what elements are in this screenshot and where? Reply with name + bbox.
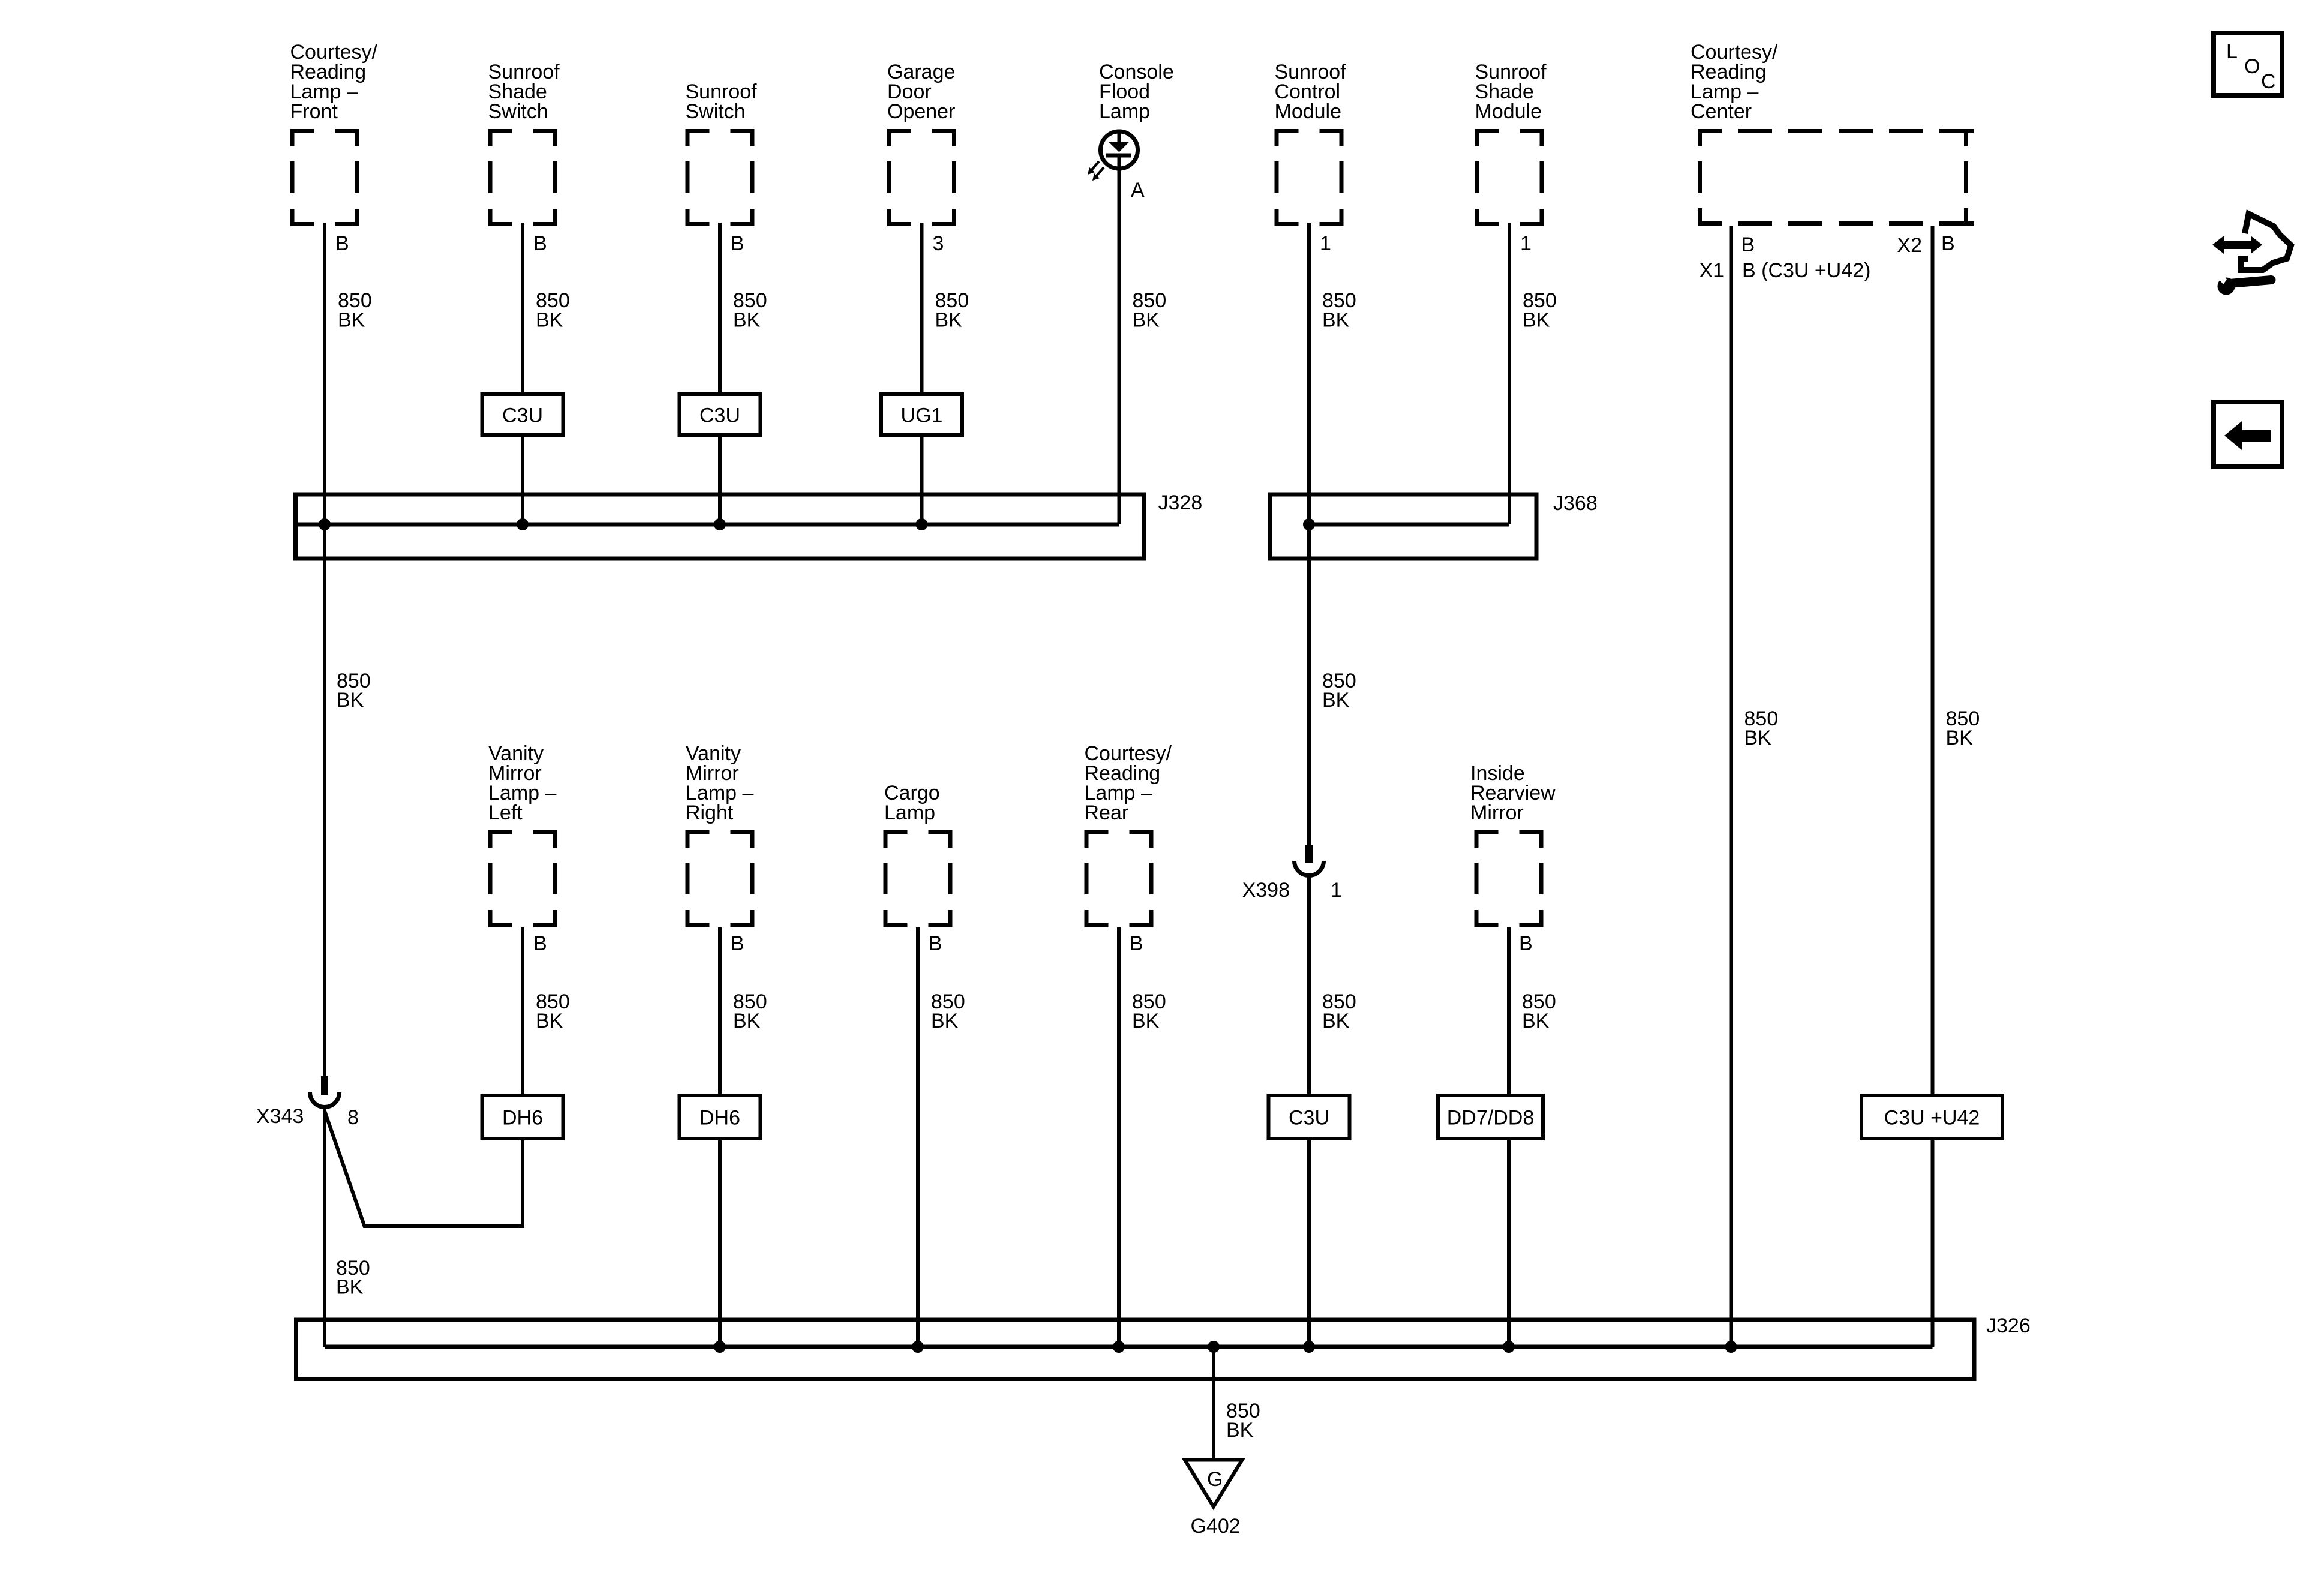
svg-text:B: B [533,232,547,255]
svg-text:BK: BK [536,308,563,331]
svg-text:8: 8 [347,1106,359,1129]
svg-text:B: B [1519,932,1533,955]
svg-text:3: 3 [933,232,944,255]
svg-text:BK: BK [1322,1010,1350,1032]
svg-text:DH6: DH6 [699,1106,740,1129]
svg-text:DH6: DH6 [502,1106,543,1129]
svg-text:Module: Module [1475,100,1542,123]
svg-text:C: C [2261,70,2276,93]
svg-text:BK: BK [1522,1010,1550,1032]
svg-text:DD7/DD8: DD7/DD8 [1447,1106,1534,1129]
svg-text:1: 1 [1520,232,1532,255]
svg-text:Right: Right [686,801,734,824]
svg-text:Front: Front [290,100,338,123]
svg-text:BK: BK [1132,1010,1160,1032]
svg-text:L: L [2226,40,2238,63]
svg-text:BK: BK [931,1010,959,1032]
svg-text:UG1: UG1 [901,404,943,427]
svg-text:X2: X2 [1897,234,1922,257]
svg-text:1: 1 [1331,879,1342,902]
svg-text:Switch: Switch [488,100,548,123]
svg-text:Left: Left [488,801,523,824]
svg-text:B: B [335,232,349,255]
svg-text:J328: J328 [1158,491,1203,514]
svg-text:G402: G402 [1191,1515,1241,1538]
svg-text:BK: BK [1744,727,1772,749]
svg-text:BK: BK [1946,727,1974,749]
svg-text:Mirror: Mirror [1470,801,1524,824]
svg-text:B: B [1130,932,1143,955]
svg-text:BK: BK [1523,308,1550,331]
svg-text:BK: BK [935,308,963,331]
svg-text:BK: BK [336,1275,364,1298]
svg-text:BK: BK [536,1010,563,1032]
svg-text:Rear: Rear [1085,801,1129,824]
svg-text:BK: BK [1322,689,1350,712]
svg-text:B (C3U +U42): B (C3U +U42) [1742,259,1870,282]
svg-text:J368: J368 [1553,492,1598,515]
svg-text:O: O [2244,55,2260,78]
svg-text:BK: BK [338,308,365,331]
svg-text:C3U: C3U [502,404,543,427]
svg-text:B: B [929,932,942,955]
svg-text:Center: Center [1691,100,1752,123]
svg-text:C3U: C3U [699,404,740,427]
svg-text:X343: X343 [256,1105,304,1128]
svg-text:BK: BK [733,308,761,331]
svg-text:B: B [731,232,744,255]
svg-text:BK: BK [337,689,364,712]
svg-text:1: 1 [1320,232,1331,255]
svg-text:Switch: Switch [686,100,746,123]
svg-text:Lamp: Lamp [884,801,935,824]
svg-text:G: G [1207,1468,1223,1491]
svg-text:Module: Module [1275,100,1342,123]
svg-text:C3U +U42: C3U +U42 [1884,1106,1980,1129]
svg-text:BK: BK [733,1010,761,1032]
svg-text:B: B [731,932,744,955]
svg-text:X1: X1 [1699,259,1724,282]
svg-text:X398: X398 [1242,879,1290,902]
svg-text:BK: BK [1226,1419,1254,1442]
svg-text:BK: BK [1322,308,1350,331]
svg-text:BK: BK [1133,308,1160,331]
svg-text:B: B [1941,232,1955,255]
svg-text:A: A [1131,179,1145,202]
svg-text:B: B [533,932,547,955]
svg-text:Lamp: Lamp [1099,100,1150,123]
svg-text:Opener: Opener [887,100,955,123]
svg-text:J326: J326 [1986,1314,2031,1337]
svg-text:B: B [1742,233,1755,256]
svg-text:C3U: C3U [1289,1106,1329,1129]
